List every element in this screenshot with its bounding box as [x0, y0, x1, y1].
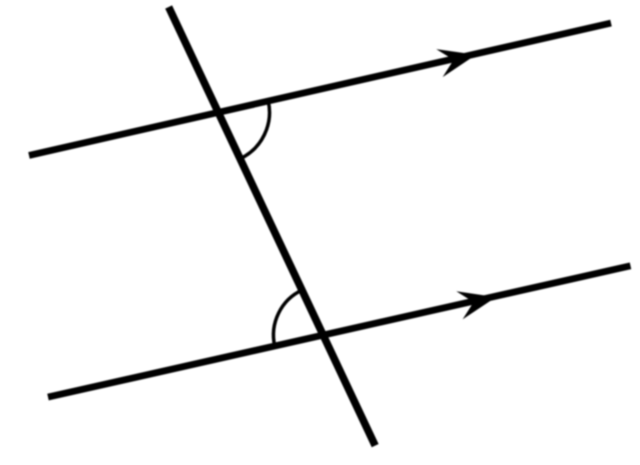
angle arc at lower intersection — [273, 290, 302, 346]
arrowhead on upper parallel line — [436, 41, 479, 77]
angle arc at upper intersection — [240, 101, 269, 159]
upper parallel line — [29, 23, 611, 155]
arrowhead on lower parallel line — [456, 283, 499, 319]
transversal line — [169, 7, 376, 446]
lower parallel line — [48, 266, 631, 397]
